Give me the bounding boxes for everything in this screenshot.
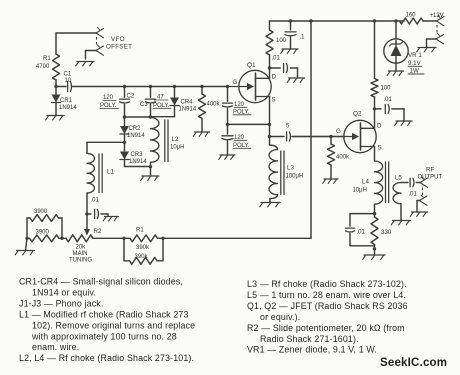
svg-text:R2: R2 xyxy=(94,228,102,235)
svg-text:L2, L4 — Rf choke (Radio Shack: L2, L4 — Rf choke (Radio Shack 273-101). xyxy=(19,353,194,363)
svg-text:SeekIC.com: SeekIC.com xyxy=(380,357,447,369)
svg-text:VR 1: VR 1 xyxy=(408,52,422,59)
svg-text:L4: L4 xyxy=(362,179,369,186)
svg-text:10μH: 10μH xyxy=(170,145,184,151)
svg-text:100: 100 xyxy=(276,38,287,44)
svg-text:1N914: 1N914 xyxy=(59,105,77,111)
svg-text:+13V: +13V xyxy=(430,13,444,19)
svg-text:S: S xyxy=(378,145,382,152)
svg-text:CR4: CR4 xyxy=(181,100,194,106)
svg-text:390k: 390k xyxy=(136,245,150,251)
svg-text:L5 — 1 turn no. 28 enam. wire: L5 — 1 turn no. 28 enam. wire over L4. xyxy=(247,290,406,300)
svg-text:10μH: 10μH xyxy=(353,188,367,194)
svg-text:MAIN: MAIN xyxy=(73,251,88,257)
svg-text:OUTPUT: OUTPUT xyxy=(418,174,443,180)
svg-text:Q1, Q2 — JFET (Radio Shack RS: Q1, Q2 — JFET (Radio Shack RS 2036 xyxy=(247,301,408,311)
svg-text:10: 10 xyxy=(65,78,72,84)
svg-text:or equiv.).: or equiv.). xyxy=(260,312,300,322)
svg-text:G: G xyxy=(336,128,341,135)
svg-text:Q2: Q2 xyxy=(353,111,362,118)
svg-text:1N914: 1N914 xyxy=(127,133,145,139)
svg-text:CR3: CR3 xyxy=(131,152,144,158)
svg-text:L2: L2 xyxy=(172,136,179,143)
svg-text:.01: .01 xyxy=(357,230,366,236)
svg-text:400k: 400k xyxy=(336,155,350,161)
svg-text:CR2: CR2 xyxy=(129,126,142,132)
svg-text:.01: .01 xyxy=(384,97,393,103)
svg-text:.01: .01 xyxy=(272,56,281,62)
svg-text:3900: 3900 xyxy=(34,209,48,215)
svg-text:C3: C3 xyxy=(140,102,148,108)
svg-text:102). Remove original turns a: 102). Remove original turns and replace xyxy=(32,320,195,330)
svg-text:Radio Shack 271-1601).: Radio Shack 271-1601). xyxy=(260,334,359,344)
svg-text:C1: C1 xyxy=(64,72,72,78)
svg-text:.01: .01 xyxy=(91,198,100,204)
svg-text:L5: L5 xyxy=(395,176,402,182)
svg-text:100μH: 100μH xyxy=(286,174,304,180)
svg-text:160: 160 xyxy=(406,13,417,19)
svg-text:400k: 400k xyxy=(207,102,221,108)
svg-text:20k: 20k xyxy=(76,245,87,251)
svg-text:100: 100 xyxy=(381,86,392,92)
svg-text:Q1: Q1 xyxy=(247,62,256,69)
svg-text:D: D xyxy=(377,123,382,130)
svg-text:L1: L1 xyxy=(107,169,114,176)
svg-text:S: S xyxy=(272,97,276,104)
svg-text:330: 330 xyxy=(381,229,392,236)
svg-text:G: G xyxy=(233,79,238,86)
svg-text:VFO: VFO xyxy=(111,36,125,43)
svg-text:J1-J3 — Phono jack.: J1-J3 — Phono jack. xyxy=(19,298,103,308)
svg-text:L3 — Rf choke (Radio Shack 273: L3 — Rf choke (Radio Shack 273-102). xyxy=(247,279,407,289)
svg-text:OFFSET: OFFSET xyxy=(106,44,132,51)
svg-text:3900: 3900 xyxy=(36,230,50,236)
svg-text:.1: .1 xyxy=(300,35,306,41)
svg-text:D: D xyxy=(272,74,277,81)
svg-text:enam. wire.: enam. wire. xyxy=(32,342,79,352)
svg-text:4700: 4700 xyxy=(36,64,50,70)
svg-text:C2: C2 xyxy=(127,94,135,100)
svg-text:L1 — Modified rf choke (Radio: L1 — Modified rf choke (Radio Shack 273 xyxy=(19,309,189,319)
svg-text:TUNING: TUNING xyxy=(69,258,92,264)
svg-text:VR1 — Zener diode, 9.1 V, 1 W.: VR1 — Zener diode, 9.1 V, 1 W. xyxy=(247,345,377,355)
svg-text:R1: R1 xyxy=(136,228,144,234)
svg-text:R2 — Slide potentiometer, 20 k: R2 — Slide potentiometer, 20 kΩ (from xyxy=(247,323,405,333)
svg-text:L3: L3 xyxy=(287,165,294,172)
svg-text:with approximately 100 turns n: with approximately 100 turns no. 28 xyxy=(31,331,177,341)
svg-text:R1: R1 xyxy=(43,56,51,62)
svg-text:390k: 390k xyxy=(135,254,149,260)
svg-text:1N914: 1N914 xyxy=(129,159,147,165)
svg-text:CR1-CR4 — Small-signal silicon: CR1-CR4 — Small-signal silicon diodes, xyxy=(19,277,183,287)
svg-text:1W: 1W xyxy=(410,68,419,75)
svg-text:.01: .01 xyxy=(409,192,418,198)
svg-text:CR1: CR1 xyxy=(60,98,73,104)
svg-text:1N914: 1N914 xyxy=(179,107,197,113)
svg-text:RF: RF xyxy=(426,167,434,174)
svg-text:1N914 or equiv.: 1N914 or equiv. xyxy=(32,287,96,297)
